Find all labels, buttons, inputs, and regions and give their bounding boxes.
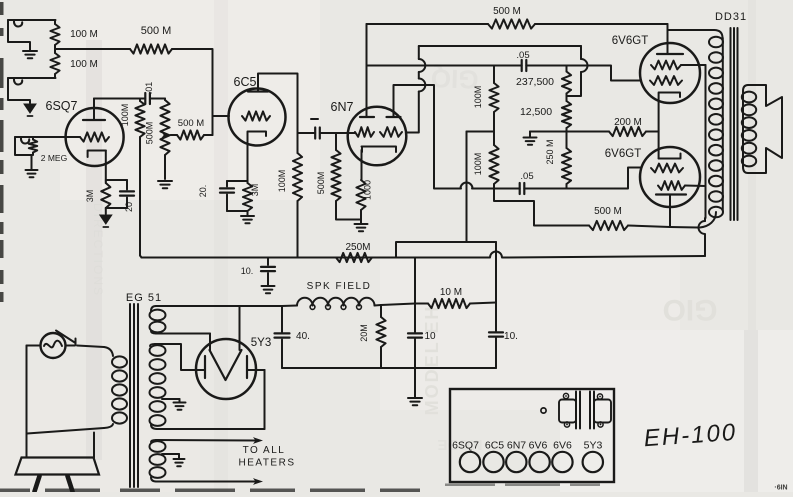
wire 5V bottom — [156, 334, 210, 351]
V4 cathode — [659, 93, 680, 159]
label 200M R17 — [614, 117, 642, 128]
label 3M R10 — [250, 184, 260, 197]
ground jack J1 — [23, 51, 37, 58]
wire x496 vertical — [495, 242, 497, 331]
hop y188.5 over x466 — [461, 183, 473, 189]
wire x415 vertical — [414, 258, 416, 333]
tube socket 6SQ7 — [460, 452, 480, 472]
pentode 6V6GT V5 envelope — [640, 147, 700, 207]
wire J1 bracket — [8, 20, 30, 50]
label 6V6GT V4 — [612, 35, 648, 47]
wire line B left — [367, 65, 522, 67]
ground 6SQ7 cathode — [100, 215, 112, 227]
wire fuse left — [27, 345, 41, 347]
V5 screen lead — [685, 185, 706, 188]
label 10 C10 — [504, 331, 518, 342]
wire screen divider gnd line — [530, 131, 609, 133]
wire riser to 6C5 grid — [213, 115, 230, 117]
label 100M R2 — [70, 59, 98, 70]
resistor 100M R18 — [489, 83, 498, 132]
label 100M R9 — [277, 170, 287, 193]
resistor 3M R8 — [101, 181, 110, 208]
6N7 grid 1 — [355, 127, 374, 137]
svg-text:237,500: 237,500 — [516, 76, 554, 88]
capacitor .05 C7 — [520, 183, 525, 194]
label 100M R1 — [70, 29, 98, 40]
resistor 2MEG R3 — [29, 137, 37, 155]
label socket 6SQ7 — [452, 440, 479, 452]
wire B+ step — [396, 242, 496, 258]
resistor 100M R9 — [293, 133, 302, 258]
ground 6N7 cathode — [355, 224, 368, 231]
label socket 5Y3 — [584, 440, 603, 452]
svg-text:SPK FIELD: SPK FIELD — [307, 281, 372, 292]
twin-triode 6N7 envelope — [348, 107, 407, 166]
label 10M R23 — [440, 287, 462, 298]
wire top bus right — [535, 23, 668, 25]
chassis layout box — [450, 389, 614, 482]
svg-text:6V6GT: 6V6GT — [605, 148, 641, 160]
label 20 C4 — [198, 185, 208, 198]
wire ground return — [282, 367, 496, 369]
wire riser x418.8 top — [418, 46, 420, 59]
rectifier 5Y3 envelope — [196, 339, 256, 399]
resistor 500M R11 — [331, 133, 361, 220]
input jack J2 — [8, 78, 56, 85]
svg-text:.05: .05 — [516, 50, 529, 61]
tube socket 6V6 — [552, 452, 572, 472]
svg-text:6N7: 6N7 — [507, 440, 526, 452]
wire HV center tap — [162, 399, 180, 402]
6SQ7 cathode — [88, 151, 106, 182]
resistor 500M R4 — [130, 44, 172, 53]
label 12500 — [520, 106, 552, 118]
svg-text:.01: .01 — [144, 82, 154, 95]
capacitor 20 C4 — [220, 181, 234, 211]
chassis hole — [541, 408, 546, 413]
wire field out — [381, 304, 415, 306]
svg-text:1000: 1000 — [363, 180, 373, 200]
svg-text:250 M: 250 M — [545, 139, 555, 164]
wire heater tap — [162, 454, 179, 458]
wire field to 20M — [375, 304, 382, 307]
svg-text:100M: 100M — [473, 86, 483, 109]
wire grid bus y49 — [55, 48, 130, 50]
svg-text:10 M: 10 M — [440, 287, 462, 298]
ground HV tap — [174, 403, 186, 410]
label 1000 R12 — [363, 180, 373, 200]
label 20M R22 — [359, 324, 369, 342]
triode 6SQ7 envelope — [66, 108, 124, 166]
tube socket 6C5 — [483, 452, 503, 472]
svg-text:6SQ7: 6SQ7 — [452, 440, 479, 452]
svg-text:GIQ: GIQ — [430, 63, 479, 95]
svg-text:6V6GT: 6V6GT — [612, 35, 648, 47]
wire line A — [419, 45, 581, 47]
wire 6N7 plate1 riser — [366, 24, 368, 107]
label 10 C3 — [241, 266, 254, 276]
capacitor 10 C9 — [408, 333, 422, 368]
label 10 C9 — [424, 331, 436, 342]
label 40 C8 — [296, 331, 310, 342]
label 500M R7 — [178, 118, 204, 129]
V4 screen grid — [651, 61, 681, 70]
svg-text:100 M: 100 M — [70, 59, 98, 70]
label 5Y3 — [251, 337, 271, 349]
svg-text:TO ALL: TO ALL — [243, 445, 286, 456]
resistor 100M R2 — [50, 49, 59, 78]
input jack J1 — [8, 20, 56, 27]
label 6SQ7 — [46, 99, 78, 113]
capacitor 10 C10 — [489, 332, 503, 368]
label .01 — [144, 82, 154, 95]
wire heater bottom — [156, 481, 255, 483]
hop x581 over lineB — [581, 59, 588, 72]
label HEATERS — [239, 458, 296, 469]
svg-text:5Y3: 5Y3 — [251, 337, 271, 349]
resistor 500M R20 — [589, 221, 628, 230]
svg-text:3M: 3M — [85, 190, 95, 203]
arrow heater top — [253, 437, 263, 444]
wire line B right — [526, 66, 641, 81]
hop bus over x496 — [490, 252, 502, 258]
ground heater tap — [174, 459, 185, 466]
svg-text:6C5: 6C5 — [234, 75, 257, 89]
V5 control grid — [651, 164, 683, 173]
ground C9 — [408, 398, 422, 405]
resistor 1000 R12 — [356, 180, 365, 223]
wire R20 to cathode — [628, 226, 698, 228]
wire HV top to plate — [155, 344, 204, 370]
ground jack J2 — [24, 104, 36, 116]
wire 5V top to B+ line — [156, 305, 282, 307]
5Y3 plate left — [183, 356, 205, 378]
ground R6 — [158, 181, 172, 188]
wire bus lower left — [396, 257, 490, 259]
wire V4 plate to primary — [668, 30, 723, 38]
6N7 cathode lead — [361, 150, 363, 180]
wire 5Y3 cathode riser — [239, 306, 241, 350]
wire HV bottom — [157, 370, 265, 429]
wire cathode net bottom — [106, 208, 127, 214]
wire B+ riser to primary — [699, 218, 706, 256]
svg-text:500 M: 500 M — [141, 25, 172, 37]
svg-text:6C5: 6C5 — [485, 440, 504, 452]
label .05 C6 — [516, 50, 529, 61]
svg-text:5Y3: 5Y3 — [584, 440, 603, 452]
svg-text:100M: 100M — [120, 104, 130, 127]
svg-text:HEATERS: HEATERS — [239, 458, 296, 469]
V5 screen grid — [658, 181, 685, 190]
wire plug left lead — [26, 346, 28, 458]
svg-text:MODEL EH: MODEL EH — [422, 305, 442, 416]
tube socket 6N7 — [506, 452, 526, 472]
ground J3/2MEG — [26, 155, 38, 177]
chassis power transformer icon — [559, 392, 611, 429]
tube socket 6V6 — [529, 452, 549, 472]
svg-text:40.: 40. — [296, 331, 310, 342]
resistor 200M R17 — [609, 127, 659, 136]
AC plug prong 1 — [35, 476, 40, 492]
svg-text:200 M: 200 M — [614, 117, 642, 128]
input jack J3 — [15, 137, 64, 144]
label DD31 — [715, 11, 747, 23]
transformer EG51 primary — [104, 347, 127, 428]
wire switch to primary — [77, 346, 104, 348]
wire J2 bracket — [8, 78, 30, 103]
label 100M R19 — [473, 153, 483, 176]
wire 6C5 cath bottom — [227, 211, 248, 215]
wire feedback stub — [494, 189, 589, 226]
svg-text:100 M: 100 M — [70, 29, 98, 40]
label C5 dash — [311, 118, 318, 120]
wire heater top — [156, 439, 255, 442]
label socket 6C5 — [485, 440, 504, 452]
wire 6N7 plate2 link — [394, 85, 462, 189]
wire fuse right — [66, 345, 76, 347]
svg-text:500M: 500M — [145, 122, 155, 145]
svg-text:GIO: GIO — [662, 293, 717, 326]
capacitor 10 C3 — [261, 258, 275, 286]
label 500M R20 — [594, 206, 622, 217]
wire x415 to ground — [414, 368, 416, 397]
resistor 100M R1 — [50, 20, 59, 49]
wire plate to coupling line — [94, 98, 140, 100]
6N7 plate 1 — [360, 107, 374, 117]
label 500M R6 — [145, 122, 155, 145]
6N7 grid 2 — [380, 127, 402, 137]
svg-text:3M: 3M — [250, 184, 260, 197]
resistor 250M R16 — [562, 132, 571, 189]
wire B+ bus — [142, 257, 397, 259]
6N7 cathode — [362, 147, 397, 153]
resistor 20M R22 — [376, 305, 385, 368]
wire riser x418.8 bottom — [406, 92, 419, 133]
svg-text:6N7: 6N7 — [331, 100, 354, 114]
label 2MEG — [41, 153, 67, 163]
svg-text:6V6: 6V6 — [553, 440, 572, 452]
svg-text:20M: 20M — [359, 324, 369, 342]
wire screens bus x705 — [705, 65, 707, 218]
EG51 heater winding — [150, 440, 166, 482]
ground divider — [524, 132, 537, 145]
6SQ7 grid — [80, 132, 109, 141]
V4 plate — [657, 24, 683, 54]
hop x418.8 over line2 — [419, 79, 426, 92]
transformer DD31 core — [731, 28, 738, 220]
6C5 plate — [248, 74, 298, 134]
svg-text:.05: .05 — [520, 171, 533, 182]
arrow heater bottom — [253, 478, 263, 485]
wire B+ line — [282, 305, 297, 308]
choke SPK FIELD — [297, 298, 375, 310]
label SPK FIELD — [307, 281, 372, 292]
wire x466 vertical — [466, 132, 468, 243]
V5 plate hook — [659, 154, 681, 159]
label 6C5 — [234, 75, 257, 89]
switch S1 — [56, 331, 76, 345]
svg-text:20.: 20. — [198, 185, 208, 198]
V5 cathode — [656, 195, 686, 228]
label 6N7 — [331, 100, 354, 114]
svg-text:10: 10 — [424, 331, 436, 342]
ground 6C5 cathode — [241, 216, 254, 223]
label 20 C2 — [124, 202, 134, 212]
resistor 12500 R15 — [562, 96, 571, 132]
ground C3 — [262, 286, 275, 293]
label 500M R4 — [141, 25, 172, 37]
resistor 3M R10 — [243, 183, 252, 211]
capacitor .1 C5 — [298, 128, 356, 139]
wire plug right lead — [27, 428, 104, 458]
6C5 cathode — [248, 132, 267, 184]
wire bus lower right — [503, 256, 706, 258]
tube socket 5Y3 — [583, 452, 603, 472]
label EG 51 — [126, 292, 162, 304]
label 6IN — [774, 485, 787, 492]
V4 screen lead — [681, 64, 706, 66]
wire y188.5 a — [472, 188, 520, 190]
label 100M R18 — [473, 86, 483, 109]
label EH-100 — [643, 419, 738, 452]
hop x418.8 over lineB — [419, 59, 426, 72]
label 3M R8 — [85, 190, 95, 203]
V4 control grid — [650, 76, 682, 85]
label 250M R21 — [345, 242, 370, 253]
label .05 C7 — [520, 171, 533, 182]
label 237500 — [516, 76, 554, 88]
svg-text:500 M: 500 M — [178, 118, 204, 129]
EG51 HV winding — [150, 344, 166, 429]
label socket 6N7 — [507, 440, 526, 452]
wire x494 top — [493, 66, 495, 84]
wire J3 bracket — [15, 137, 32, 155]
svg-text:10.: 10. — [241, 266, 254, 276]
wire riser x418.8 mid — [418, 72, 420, 79]
transformer DD31 primary — [709, 37, 723, 218]
svg-text:DD31: DD31 — [715, 11, 747, 23]
svg-text:100M: 100M — [473, 153, 483, 176]
pentode 6V6GT V4 envelope — [640, 43, 700, 103]
label 500M R11 — [316, 172, 326, 195]
AC plug body — [16, 458, 100, 475]
wire R4 to grid riser — [172, 49, 213, 135]
resistor 237500 R14 — [562, 66, 571, 97]
AC plug prong 2 — [68, 476, 73, 492]
5Y3 filament — [210, 350, 242, 380]
svg-text:500 M: 500 M — [594, 206, 622, 217]
wire 6C5 cath branch — [227, 180, 248, 182]
label socket 6V6 — [553, 440, 572, 452]
wire x581 top — [580, 46, 582, 59]
resistor 100M R19 — [489, 132, 498, 189]
label socket 6V6 — [529, 440, 548, 452]
speaker voice coil — [742, 92, 756, 167]
wire top B+ bus — [367, 23, 489, 25]
label 6V6GT V5 — [605, 148, 641, 160]
label 100M R5 — [120, 104, 130, 127]
speaker horn — [743, 85, 782, 173]
potentiometer 500M R6 — [160, 99, 169, 180]
svg-text:500M: 500M — [316, 172, 326, 195]
6SQ7 plate — [83, 99, 105, 121]
transformer EG51 core — [130, 304, 138, 487]
svg-text:250M: 250M — [345, 242, 370, 253]
wire y188.5 b — [524, 168, 641, 189]
svg-text:100M: 100M — [277, 170, 287, 193]
label 500M R13 — [493, 6, 521, 17]
6N7 plate 2 — [387, 113, 401, 118]
svg-text:6SQ7: 6SQ7 — [46, 99, 78, 113]
svg-text:500 M: 500 M — [493, 6, 521, 17]
5Y3 plate right — [247, 356, 265, 378]
capacitor .01 C1 — [140, 93, 165, 104]
6C5 grid — [242, 111, 270, 120]
resistor 250M R21 — [336, 253, 372, 262]
svg-text:·6IN: ·6IN — [774, 485, 787, 492]
svg-text:12,500: 12,500 — [520, 106, 552, 118]
wire x466 link — [467, 131, 495, 133]
EG51 5V winding — [150, 306, 166, 334]
resistor 500M R7 — [171, 130, 213, 139]
triode 6C5 envelope — [229, 89, 286, 146]
label 250M R16 — [545, 139, 555, 164]
resistor 500M R13 — [488, 19, 535, 28]
wire cathode branch — [106, 179, 127, 181]
wire x581 bottom — [567, 72, 582, 96]
capacitor 20 C2 — [120, 180, 134, 208]
label TO ALL — [243, 445, 286, 456]
svg-text:6V6: 6V6 — [529, 440, 548, 452]
svg-text:10.: 10. — [504, 331, 518, 342]
resistor 10M R23 — [415, 299, 496, 308]
resistor 100M R5 — [135, 99, 144, 258]
capacitor 40 C8 — [275, 306, 290, 368]
svg-text:EG 51: EG 51 — [126, 292, 162, 304]
6SQ7 grid lead — [65, 136, 80, 138]
R6 wiper arrow — [162, 132, 171, 138]
fuse F1 — [41, 333, 66, 358]
svg-text:2 MEG: 2 MEG — [41, 153, 67, 163]
capacitor .05 C6 — [522, 60, 527, 71]
wire primary bottom — [700, 212, 716, 228]
